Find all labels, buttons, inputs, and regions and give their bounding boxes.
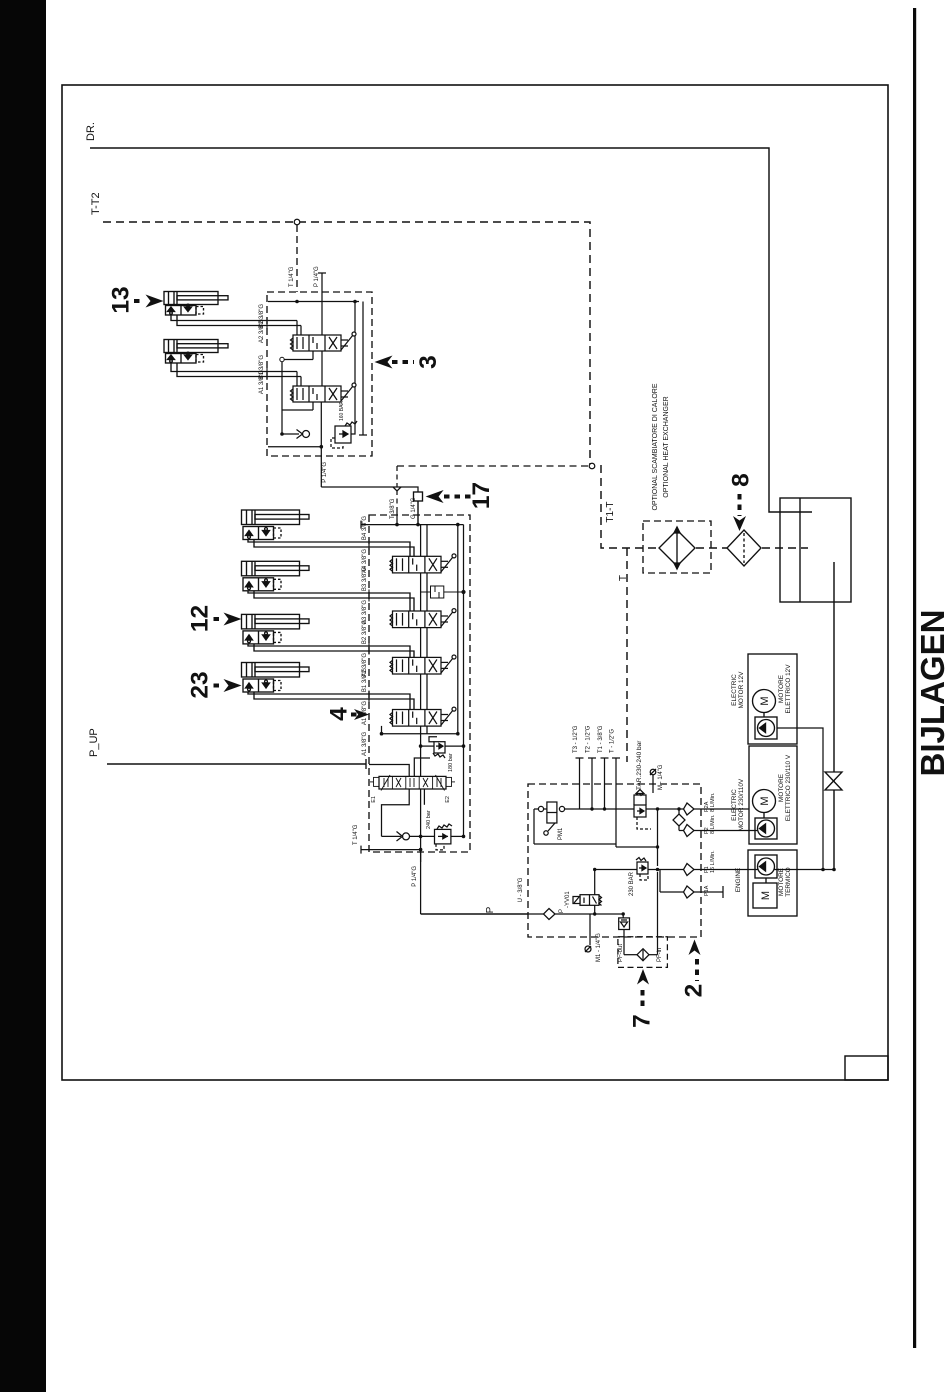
wire cylA A/B lines: [248, 540, 410, 557]
motor M 12V: [753, 690, 776, 713]
callout 12: [187, 605, 242, 632]
wire T side gallery right: [457, 525, 459, 734]
cylinder C4-A: [242, 510, 415, 556]
junction dots right plumbing: [821, 868, 836, 872]
directional valve U3A (block3 upper): [291, 332, 357, 351]
junction dots block4: [380, 523, 466, 852]
wire P2 line: [679, 830, 687, 832]
callout 23: [187, 671, 242, 698]
proportional valve PV1: [370, 775, 455, 791]
directional valve U4-3: [390, 655, 456, 674]
svg-text:P 1/4"G: P 1/4"G: [314, 266, 320, 287]
pump engine: [755, 855, 777, 878]
wire T gallery block3: [268, 301, 359, 303]
block3 internal wires: [268, 273, 418, 525]
svg-text:T 1/4"G: T 1/4"G: [289, 266, 295, 287]
T ports above block2: [576, 758, 621, 847]
wire P line through block3: [321, 351, 323, 386]
wire P1 line: [595, 869, 834, 871]
svg-text:8 L/Min.: 8 L/Min.: [710, 814, 716, 834]
svg-text:7: 7: [629, 1014, 656, 1028]
orifice 17 on P feed: [414, 492, 423, 501]
junction dots block3: [280, 300, 357, 449]
cylinder C13-1: [164, 292, 301, 326]
relief valve TAR 230-240: [634, 790, 651, 830]
wire P gallery vertical: [420, 525, 422, 556]
heat exchanger optional dashed box: [643, 521, 711, 573]
relief valve block3: [331, 421, 357, 448]
wire check/relief240 line: [382, 835, 402, 837]
svg-text:OPTIONAL HEAT EXCHANGER: OPTIONAL HEAT EXCHANGER: [663, 396, 670, 497]
check diamond on P: [544, 909, 556, 920]
wire P_UP line: [107, 763, 366, 765]
svg-text:P1A: P1A: [704, 885, 710, 896]
relief valve 240bar: [435, 824, 453, 850]
svg-text:T1 - 3/8"G: T1 - 3/8"G: [598, 725, 604, 753]
wire prop valve feed B1: [369, 765, 409, 777]
wire T to block3 dashed: [296, 225, 298, 292]
solenoid valve YV01: [573, 870, 602, 915]
wire PF-in riser: [616, 809, 658, 955]
electric motor 230/110V box: [749, 746, 797, 844]
wire P exit to pump: [420, 850, 422, 914]
filter 7 dashed enclosure: [618, 937, 668, 968]
svg-text:8: 8: [728, 473, 755, 487]
svg-text:ELETTRICO 12V: ELETTRICO 12V: [785, 664, 792, 714]
svg-text:B2 3/8"G: B2 3/8"G: [362, 620, 368, 644]
svg-text:A1 3/8"G: A1 3/8"G: [362, 732, 368, 756]
pump 230: [755, 818, 777, 839]
port ticks block4 left edge: [368, 539, 370, 703]
title block corner box: [845, 1056, 888, 1080]
callout 17: [426, 482, 495, 509]
engine M square: [753, 883, 777, 908]
tank reservoir: [780, 498, 851, 602]
engine box: [748, 850, 797, 916]
svg-text:240 bar: 240 bar: [426, 810, 432, 829]
port M plugged: [650, 769, 656, 793]
svg-text:T 1/4"G: T 1/4"G: [353, 824, 359, 845]
port ticks block3 left edge: [266, 317, 268, 380]
valve block 3 dashed enclosure: [267, 292, 372, 456]
svg-text:M: M: [759, 696, 771, 705]
block4 galleries: [361, 521, 464, 914]
svg-text:BIJLAGEN: BIJLAGEN: [914, 610, 950, 777]
check diamond P2A-P2: [673, 809, 685, 831]
port labels top block4: [390, 497, 417, 519]
svg-text:160 BAR: 160 BAR: [339, 401, 345, 421]
svg-text:-YV01: -YV01: [565, 891, 571, 908]
svg-text:MOTOR 12V: MOTOR 12V: [738, 671, 745, 709]
wire valve1 top stubs: [296, 321, 298, 336]
cylinder C4-D: [242, 663, 415, 710]
wire P supply from block4 to block2: [421, 913, 528, 915]
svg-text:T-T2: T-T2: [90, 192, 102, 215]
svg-text:PF-out: PF-out: [618, 944, 624, 962]
port M1 plugged: [585, 914, 591, 952]
svg-text:E2: E2: [445, 796, 451, 803]
cylinder C13-2: [164, 340, 301, 377]
wire relief output to T gallery: [351, 302, 355, 435]
wire DR. drain line: [90, 148, 812, 512]
wire cylC A/B lines: [248, 644, 410, 658]
filter 7 diamond: [624, 949, 658, 961]
callout 13: [108, 286, 164, 313]
wire cyl1 A/B lines: [171, 315, 297, 321]
svg-text:A2 3/8"G: A2 3/8"G: [259, 319, 265, 343]
anti-shock valve small box: [421, 586, 466, 598]
wire orifice line into block4: [417, 501, 419, 525]
svg-text:MOTORE: MOTORE: [778, 868, 785, 896]
svg-text:ENGINE: ENGINE: [735, 868, 742, 893]
svg-text:MOTORE: MOTORE: [778, 675, 785, 703]
wire valve2 bottom stub: [312, 402, 314, 410]
svg-text:16 L/Min.: 16 L/Min.: [710, 850, 716, 873]
counterbalance valve assembly C13-1: [166, 306, 197, 316]
svg-text:180 bar: 180 bar: [448, 753, 454, 772]
wire T-T2 dashed line: [103, 222, 808, 762]
wire T return block4 to T-T2: [396, 490, 398, 525]
svg-text:8 L/Min.: 8 L/Min.: [710, 792, 716, 812]
svg-text:3: 3: [415, 355, 442, 369]
pump 12V: [755, 717, 777, 739]
svg-text:B4 3/8"G: B4 3/8"G: [362, 516, 368, 540]
svg-text:P 1/4"G: P 1/4"G: [412, 866, 418, 887]
junction circle T-T2 / T1-T: [589, 463, 595, 469]
shutoff valve X on suction: [825, 772, 842, 790]
relief valve 230 BAR: [636, 858, 648, 881]
motor M 230: [753, 790, 776, 813]
callout 8: [728, 473, 755, 531]
svg-text:M: M: [759, 796, 771, 805]
svg-text:G 1/4"G: G 1/4"G: [411, 497, 417, 519]
svg-text:4: 4: [326, 707, 353, 721]
page black scan edge bar: [0, 0, 46, 1392]
svg-text:230 BAR: 230 BAR: [629, 871, 635, 896]
callout 2: [681, 940, 708, 998]
wire P1A line: [660, 870, 723, 899]
wire P down to block4 via orifice: [321, 487, 418, 525]
wire T gallery top: [361, 524, 464, 526]
pressure switch PM1: [538, 802, 564, 835]
wire cylD A/B lines: [248, 692, 410, 710]
footer rule: [913, 8, 916, 1348]
electric motor 12V box: [748, 654, 797, 744]
pump unit block 2 dashed enclosure: [528, 784, 701, 937]
svg-text:PM1: PM1: [558, 827, 564, 840]
svg-text:T - 1/2"G: T - 1/2"G: [610, 729, 616, 753]
svg-text:TERMICO: TERMICO: [785, 867, 792, 896]
wire T return bottom: [268, 446, 321, 448]
callout 7: [629, 969, 656, 1028]
junction circle block3 left: [280, 357, 284, 361]
svg-text:P 1/4"G: P 1/4"G: [322, 462, 328, 483]
relief valve 180bar: [429, 737, 445, 758]
svg-text:ELETTRICO 230/110 V: ELETTRICO 230/110 V: [785, 754, 792, 821]
valve block 4 dashed enclosure: [369, 515, 470, 852]
svg-text:DR.: DR.: [85, 122, 97, 141]
callout 4: [326, 707, 370, 721]
cylinder C4-C: [242, 614, 415, 657]
svg-text:17: 17: [468, 482, 495, 509]
wire suction line from tank: [833, 562, 835, 868]
junction dots block2: [590, 807, 680, 915]
wire under valve4: [381, 726, 383, 734]
directional valve U3B (block3 lower): [291, 383, 357, 402]
wire valve2 top stubs: [296, 372, 298, 387]
svg-text:E1: E1: [371, 796, 377, 803]
svg-text:23: 23: [187, 671, 214, 698]
svg-text:MOTOR 230/110V: MOTOR 230/110V: [738, 778, 745, 831]
wire bottom T: [361, 849, 421, 851]
svg-text:T 3/8"G: T 3/8"G: [390, 498, 396, 519]
svg-text:P: P: [485, 906, 496, 913]
wire plugged port line: [362, 302, 364, 436]
port labels P2A P2 P1 P1A: [704, 792, 716, 896]
svg-text:12: 12: [187, 605, 214, 632]
wire cyl2 A/B lines: [171, 363, 297, 372]
heat exchanger cooler diamond: [659, 527, 695, 569]
bypass check box on P/filter: [619, 914, 630, 955]
wire gauge/P2A line: [534, 809, 749, 844]
svg-text:T1-T: T1-T: [605, 501, 616, 522]
svg-text:ELECTRIC: ELECTRIC: [731, 789, 738, 821]
wire left gallery block3: [282, 360, 299, 435]
svg-text:B1 3/8"G: B1 3/8"G: [362, 668, 368, 692]
directional valve U4-1: [390, 554, 456, 573]
callout 3: [375, 355, 443, 369]
wire under prop valve: [382, 789, 410, 836]
svg-text:M - 1/4"G: M - 1/4"G: [658, 764, 664, 790]
junction block4 T / T-T2: [393, 487, 401, 491]
check valve block4: [397, 832, 410, 842]
directional valve U4-2: [390, 609, 456, 628]
svg-text:P: P: [559, 909, 565, 913]
svg-text:ELECTRIC: ELECTRIC: [731, 674, 738, 706]
svg-text:U - 3/8"G: U - 3/8"G: [518, 877, 524, 902]
svg-text:TAR.230-240 bar: TAR.230-240 bar: [636, 740, 643, 790]
check valves pump outlets: [684, 803, 695, 898]
counterbalance valve assembly C13-2: [166, 354, 197, 364]
svg-text:B3 3/8"G: B3 3/8"G: [362, 567, 368, 591]
directional valve U4-4: [390, 707, 456, 726]
wire valve1 bottom stubs: [312, 351, 314, 360]
wire T channel vertical pair: [426, 525, 428, 557]
wire P line inside block2: [528, 913, 623, 915]
svg-text:T2 - 1/2"G: T2 - 1/2"G: [586, 725, 592, 753]
wire cylB A/B lines: [248, 591, 410, 611]
svg-text:P_UP: P_UP: [88, 728, 100, 757]
port labels block3: [259, 266, 345, 483]
svg-text:PF-in: PF-in: [657, 948, 663, 962]
svg-text:OPTIONAL SCAMBIATORE DI CALORE: OPTIONAL SCAMBIATORE DI CALORE: [652, 383, 659, 510]
svg-text:13: 13: [108, 286, 135, 313]
svg-text:T: T: [618, 575, 629, 581]
svg-text:2: 2: [681, 984, 708, 998]
svg-text:MOTORE: MOTORE: [778, 774, 785, 802]
check valve block3: [297, 430, 310, 439]
cylinder C4-B: [242, 561, 415, 611]
wire relief180 line: [421, 745, 434, 747]
svg-text:M1 - 1/4"G: M1 - 1/4"G: [596, 933, 602, 962]
filter 8 diamond: [727, 530, 761, 566]
svg-text:A1 3/8"G: A1 3/8"G: [259, 370, 265, 394]
wire 12V pump outlet: [777, 728, 823, 870]
wire P port stub block3: [321, 273, 323, 335]
drawing frame: [62, 85, 888, 1080]
junction circle on T-T2: [294, 219, 300, 225]
svg-text:T3 - 1/2"G: T3 - 1/2"G: [573, 725, 579, 753]
svg-text:M: M: [760, 891, 772, 900]
